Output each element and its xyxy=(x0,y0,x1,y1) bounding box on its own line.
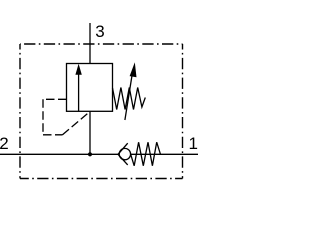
svg-text:2: 2 xyxy=(0,134,9,153)
enclosure frame (dash-dot assembly boundary) xyxy=(20,44,183,179)
pilot line (dashed) vertical xyxy=(42,99,44,135)
valve body V1 (pressure sequence valve square) xyxy=(67,64,113,112)
check valve spring xyxy=(131,142,161,166)
spring adjustment arrow xyxy=(125,62,137,120)
pilot line (dashed) left horizontal xyxy=(43,98,67,100)
label port 2 xyxy=(0,134,9,153)
label port 1 xyxy=(189,134,198,153)
wire port 3 line xyxy=(89,23,91,64)
check valve seat xyxy=(118,143,128,165)
control spring (zigzag at right of valve body) xyxy=(113,88,146,110)
junction node xyxy=(88,152,92,156)
svg-text:1: 1 xyxy=(189,134,198,153)
flow path arrow inside valve xyxy=(75,64,81,112)
wire valve outlet down-pipe xyxy=(89,111,91,154)
pilot line (dashed) diagonal to outlet xyxy=(63,112,91,135)
check valve ball xyxy=(119,148,130,159)
wire port 2 main line xyxy=(0,153,118,155)
svg-text:3: 3 xyxy=(95,22,104,41)
label port 3 xyxy=(95,22,104,41)
wire port 1 line xyxy=(131,153,199,155)
pilot line (dashed) bottom horizontal xyxy=(43,134,63,136)
